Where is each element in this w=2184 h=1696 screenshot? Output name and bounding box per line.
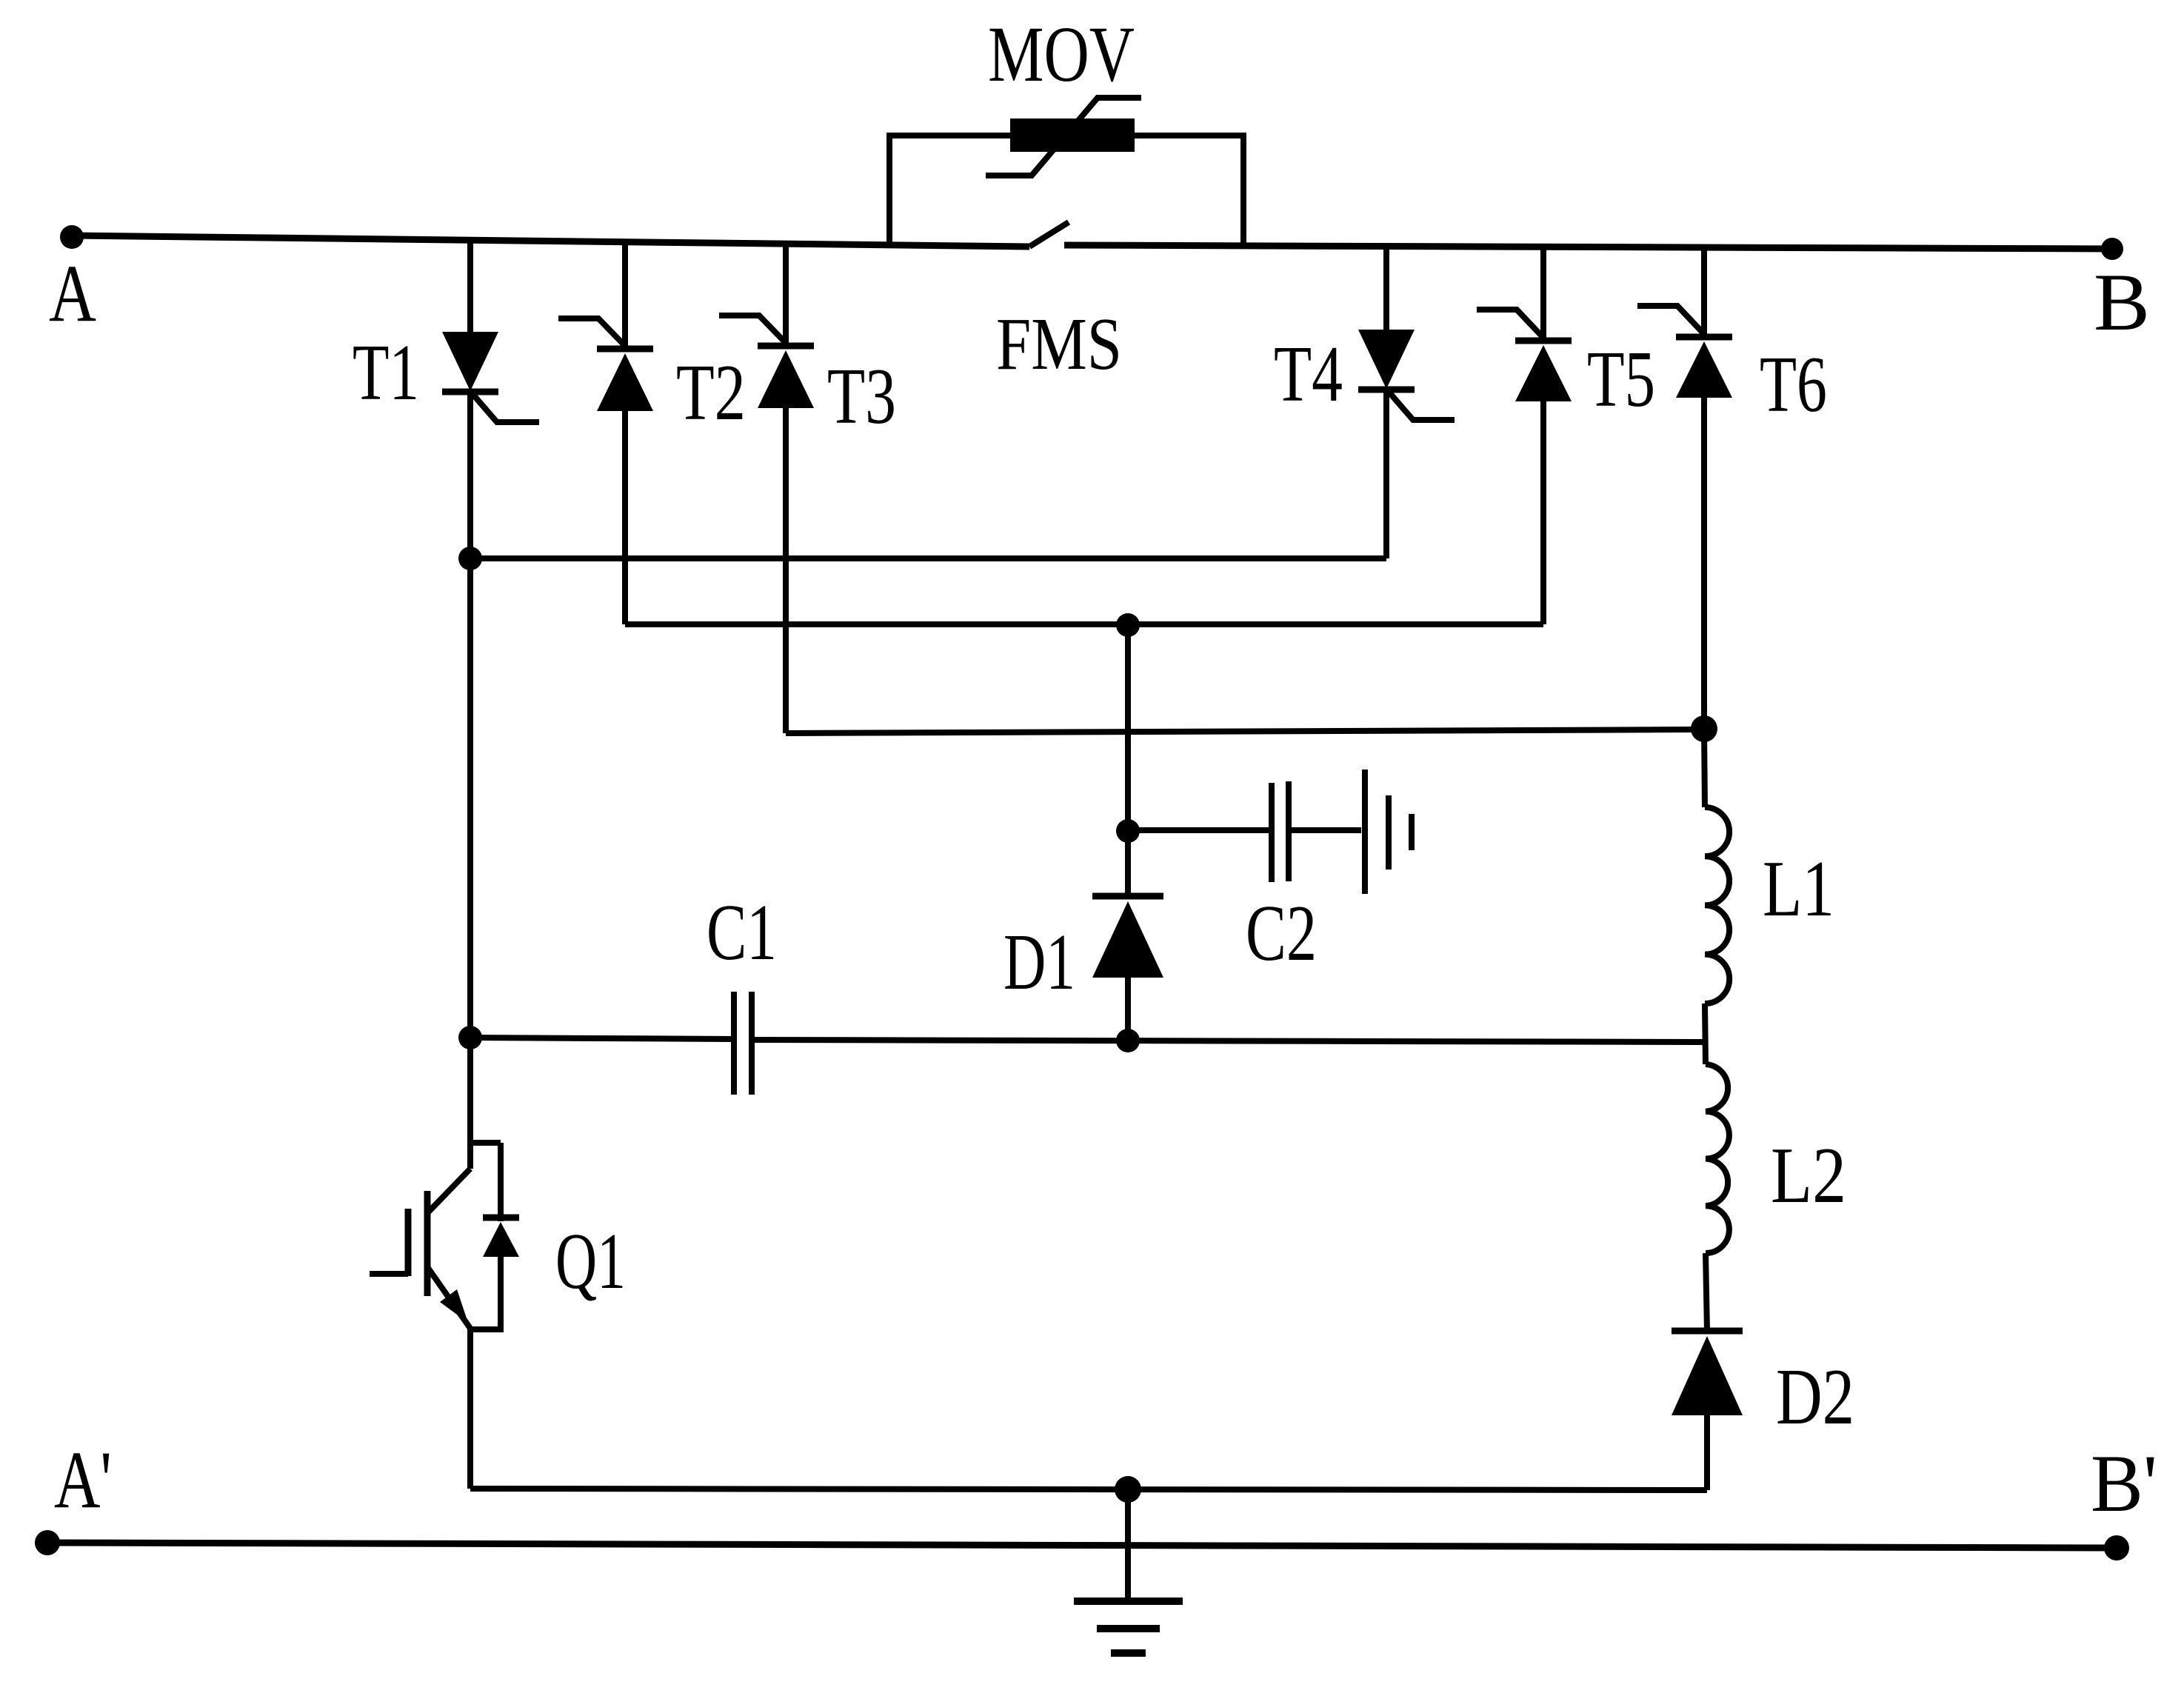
- transistor Q1 body bar: [424, 1191, 431, 1296]
- svg-text:D1: D1: [1003, 918, 1075, 1006]
- wire C2 branch left: [1128, 827, 1272, 833]
- varistor MOV body: [1010, 118, 1135, 152]
- thyristor T4 cathode wire: [1383, 389, 1389, 558]
- svg-text:B': B': [2091, 1438, 2157, 1529]
- capacitor C1 plate right: [749, 992, 755, 1095]
- junction node C1 line center: [1116, 1029, 1140, 1052]
- svg-text:C1: C1: [707, 889, 777, 977]
- thyristor T1 anode wire: [467, 241, 473, 332]
- thyristor T1 cathode bar: [442, 389, 498, 395]
- thyristor T4 cathode bar: [1358, 387, 1415, 393]
- thyristor T5 gate: [1477, 310, 1543, 337]
- svg-text:T3: T3: [827, 353, 896, 441]
- thyristor T5 body: [1515, 345, 1572, 401]
- svg-text:A': A': [54, 1435, 112, 1525]
- wire C1 line left: [470, 1038, 734, 1039]
- thyristor T3 anode wire: [783, 408, 789, 733]
- thyristor T3 cathode bar: [758, 343, 814, 350]
- thyristor T6 anode wire: [1701, 398, 1707, 729]
- diode D2 body: [1672, 1336, 1743, 1415]
- wire circuit bottom: [470, 1489, 1707, 1490]
- svg-text:B: B: [2094, 257, 2150, 347]
- wire Q1 step top: [470, 1140, 501, 1146]
- ground bar 1: [1074, 1597, 1183, 1605]
- svg-text:FMS: FMS: [996, 302, 1122, 385]
- diode Q1 freewheel cathode bar: [483, 1215, 519, 1221]
- wire Q1 diode branch upper: [498, 1143, 504, 1221]
- svg-text:L2: L2: [1771, 1132, 1846, 1220]
- thyristor T6 cathode wire: [1701, 247, 1707, 335]
- svg-text:T5: T5: [1587, 335, 1655, 424]
- diode D2 cathode bar: [1672, 1328, 1743, 1335]
- wire MOV loop left: [889, 136, 1010, 245]
- junction node ground tap: [1115, 1476, 1141, 1503]
- C2 ground bar medium: [1386, 795, 1392, 869]
- varistor MOV strike line: [986, 98, 1141, 176]
- diode Q1 freewheel body: [483, 1222, 519, 1257]
- wire MOV loop right: [1135, 136, 1243, 246]
- svg-text:L1: L1: [1763, 845, 1834, 933]
- thyristor T5 cathode bar: [1515, 338, 1572, 344]
- wire T1 to T4: [470, 555, 1386, 561]
- thyristor T4 body: [1358, 330, 1415, 389]
- wire right column above L1: [1704, 729, 1705, 807]
- capacitor C2 plate left: [1269, 783, 1275, 882]
- node A terminal dot: [60, 225, 84, 249]
- svg-text:Q1: Q1: [555, 1218, 626, 1306]
- thyristor T4 anode wire: [1383, 246, 1389, 330]
- junction node at T1 column y754: [458, 547, 482, 570]
- svg-text:T1: T1: [353, 329, 419, 417]
- inductor L2: [1706, 1064, 1729, 1253]
- node A' terminal dot: [35, 1530, 60, 1555]
- diode D2 anode wire: [1704, 1415, 1710, 1490]
- diode D1 body: [1092, 901, 1163, 978]
- thyristor T2 anode wire: [622, 411, 628, 624]
- thyristor T6 cathode bar: [1676, 334, 1732, 341]
- transistor Q1 emitter diagonal: [428, 1268, 471, 1329]
- thyristor T6 body: [1676, 341, 1732, 398]
- transistor Q1 gate lead: [370, 1271, 408, 1277]
- thyristor T1 cathode wire: [467, 391, 473, 558]
- transistor Q1 collector wire: [467, 1038, 473, 1169]
- junction node center y843: [1116, 613, 1140, 637]
- thyristor T6 gate: [1637, 306, 1703, 333]
- transistor Q1 collector diagonal: [428, 1169, 470, 1212]
- wire between L1 and C1 line: [1705, 1004, 1706, 1064]
- svg-text:T6: T6: [1760, 341, 1827, 429]
- junction node C1 line left: [458, 1026, 482, 1049]
- diode D1 anode wire: [1125, 978, 1131, 1040]
- wire Q1 emitter down: [467, 1329, 473, 1489]
- wire center column upper: [1125, 625, 1131, 831]
- wire T2 to T5: [625, 621, 1543, 627]
- thyristor T2 gate: [558, 318, 624, 345]
- junction node C2 tap: [1116, 819, 1140, 843]
- svg-text:MOV: MOV: [988, 11, 1135, 99]
- wire T3 to T6: [786, 730, 1704, 733]
- wire bottom bus A' to B': [47, 1543, 2117, 1548]
- capacitor C2 plate right: [1286, 781, 1292, 881]
- wire T1 column middle: [467, 558, 473, 1038]
- switch FMS blade: [1029, 222, 1069, 247]
- wire C2 to ground bars: [1289, 827, 1361, 833]
- node B' terminal dot: [2104, 1535, 2129, 1560]
- thyristor T3 gate: [719, 316, 785, 342]
- thyristor T5 cathode wire: [1540, 247, 1546, 338]
- thyristor T2 body: [597, 353, 653, 411]
- thyristor T4 gate: [1389, 393, 1455, 420]
- svg-text:T4: T4: [1274, 330, 1343, 418]
- wire Q1 diode branch lower: [470, 1257, 501, 1329]
- ground bar 3: [1111, 1649, 1146, 1657]
- transistor Q1 emitter arrowhead: [440, 1289, 468, 1323]
- svg-text:T2: T2: [676, 349, 746, 437]
- thyristor T2 cathode bar: [597, 346, 653, 353]
- node B terminal dot: [2101, 238, 2123, 260]
- svg-text:C2: C2: [1246, 889, 1317, 978]
- thyristor T1 body: [442, 332, 498, 391]
- wire top bus right segment: [1064, 245, 2112, 249]
- diode D1 cathode wire: [1125, 831, 1131, 896]
- thyristor T3 cathode wire: [783, 244, 789, 344]
- thyristor T2 cathode wire: [622, 242, 628, 347]
- transistor Q1 gate bar: [405, 1209, 412, 1276]
- svg-text:A: A: [49, 248, 96, 338]
- ground bar 2: [1097, 1625, 1160, 1632]
- wire L2 to D2: [1706, 1253, 1707, 1331]
- thyristor T5 anode wire: [1540, 401, 1546, 624]
- wire ground stem: [1125, 1489, 1131, 1601]
- inductor L1: [1705, 807, 1729, 1004]
- C2 ground bar tall: [1362, 769, 1368, 894]
- wire top bus left segment: [72, 236, 1029, 247]
- junction node right column y984: [1691, 715, 1717, 742]
- C2 ground bar short: [1409, 814, 1415, 850]
- svg-text:D2: D2: [1776, 1353, 1854, 1441]
- thyristor T1 gate: [473, 395, 539, 422]
- diode D1 cathode bar: [1092, 893, 1163, 900]
- capacitor C1 plate left: [731, 992, 737, 1095]
- wire C1 line right: [752, 1040, 1706, 1042]
- thyristor T3 body: [758, 350, 814, 408]
